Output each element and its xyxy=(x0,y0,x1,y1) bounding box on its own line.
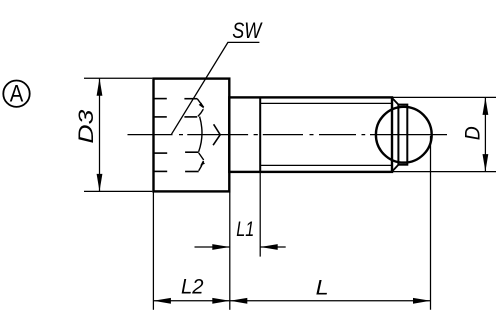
D3 dimension line xyxy=(99,79,101,192)
D3 extension line top xyxy=(84,77,152,79)
svg-text:L2: L2 xyxy=(181,276,204,299)
chamfer bottom xyxy=(392,165,398,171)
L1 arrow right-pointing xyxy=(212,244,230,250)
spring force open arrow on axis xyxy=(213,124,220,145)
thread minor diameter top xyxy=(260,102,392,104)
shank and threaded body outline xyxy=(229,97,392,171)
D dimension line xyxy=(484,97,486,171)
D3 arrow up xyxy=(97,78,103,96)
chamfer top xyxy=(392,98,398,104)
spring left tick 4 xyxy=(155,170,168,172)
svg-text:SW: SW xyxy=(232,18,263,43)
spring middle tick 2 xyxy=(184,116,197,118)
head outline xyxy=(154,79,230,192)
spring left tick 1 xyxy=(155,98,167,100)
L1 extension line right xyxy=(259,172,261,257)
L1 dimension line left tail xyxy=(195,246,230,248)
spring left tick 2 xyxy=(155,116,167,118)
spring middle tick 1 xyxy=(184,98,197,100)
L2 arrow left end xyxy=(153,298,171,304)
spring middle tick 3 xyxy=(185,151,199,153)
D3 arrow down xyxy=(97,174,103,192)
ball xyxy=(376,107,432,163)
centerline (axis) xyxy=(128,134,448,136)
leader line for SW xyxy=(172,42,260,134)
extension line at ball tangent xyxy=(430,136,432,310)
D arrow up xyxy=(483,97,489,115)
L1 arrow left-pointing xyxy=(260,244,278,250)
spring coil upper arrowhead xyxy=(199,103,204,109)
svg-text:L: L xyxy=(316,277,329,300)
svg-text:L1: L1 xyxy=(236,218,254,241)
spring middle tick 4 xyxy=(185,171,199,173)
L arrow right end xyxy=(413,298,431,304)
spring coil lower arrowhead xyxy=(200,161,205,166)
D extension line top xyxy=(392,96,496,98)
D arrow down xyxy=(483,154,489,172)
D3 extension line bottom xyxy=(84,190,152,192)
D extension line bottom xyxy=(392,171,496,173)
thread minor diameter bottom xyxy=(260,164,392,166)
L2 dimension line xyxy=(153,300,430,302)
L1 dimension line right tail xyxy=(260,246,286,248)
L arrow at middle pointing left xyxy=(230,298,248,304)
svg-text:D: D xyxy=(462,126,485,140)
spring left tick 3 xyxy=(155,152,168,154)
spring coil lower V stroke xyxy=(199,153,204,171)
spring long arc across centerline xyxy=(199,117,202,152)
spring coil upper V stroke xyxy=(197,99,204,117)
extension line below head right edge xyxy=(229,191,231,309)
svg-text:D3: D3 xyxy=(75,109,98,143)
L2 arrow at middle pointing right xyxy=(212,298,230,304)
extension line below head left edge xyxy=(152,191,154,309)
ball guide sleeve xyxy=(398,105,407,165)
view label circle A xyxy=(3,81,29,107)
svg-text:A: A xyxy=(10,81,24,108)
thread start line xyxy=(259,97,261,171)
